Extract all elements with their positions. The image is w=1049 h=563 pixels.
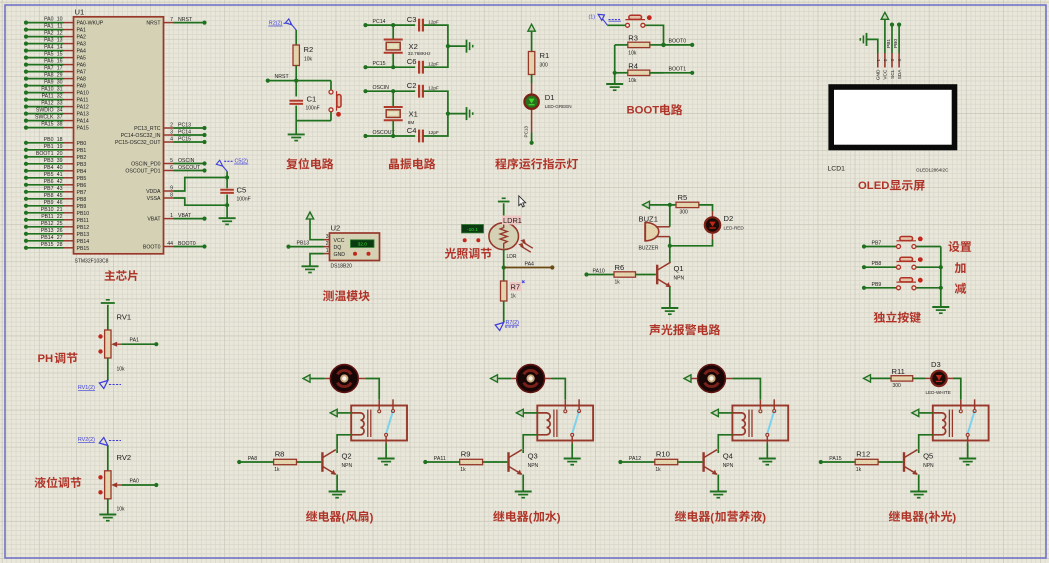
relay RL4 contact pins xyxy=(960,400,962,410)
wire right bus of X1 xyxy=(423,91,448,136)
svg-text:PA13: PA13 xyxy=(77,112,89,118)
svg-text:C5: C5 xyxy=(237,186,247,195)
wire probe to BOOT button xyxy=(607,24,625,26)
wire R1 to D1 xyxy=(531,75,533,84)
svg-text:NRST: NRST xyxy=(178,17,193,23)
svg-text:): ) xyxy=(762,512,766,524)
svg-text:LCD1: LCD1 xyxy=(828,166,846,173)
svg-text:PA2: PA2 xyxy=(44,31,54,37)
svg-text:30: 30 xyxy=(57,80,63,86)
reset button xyxy=(330,81,332,90)
wire PA4 node to R7 xyxy=(503,268,505,282)
svg-text:PA0-WKUP: PA0-WKUP xyxy=(77,21,104,27)
svg-text:PC13: PC13 xyxy=(178,123,191,129)
net PB13 wire to U2 xyxy=(289,246,324,248)
transistor Q5 NPN xyxy=(903,452,905,472)
svg-text:PA8: PA8 xyxy=(44,73,54,79)
svg-text:Q4: Q4 xyxy=(723,452,733,461)
net PC15 wire xyxy=(366,66,416,68)
net OSCOUT wire xyxy=(366,135,416,137)
svg-text:NRST: NRST xyxy=(146,21,161,27)
resistor R11 300 xyxy=(891,376,913,381)
svg-text:PB6: PB6 xyxy=(77,183,87,189)
svg-text:RV1: RV1 xyxy=(117,313,132,322)
svg-text:PB6: PB6 xyxy=(44,179,54,185)
svg-text:DS18B20: DS18B20 xyxy=(331,264,353,270)
svg-text:PA9: PA9 xyxy=(44,80,54,86)
svg-text:SWCLK: SWCLK xyxy=(35,115,54,121)
U1 pin 32 (PA11) left wire xyxy=(64,99,74,101)
svg-text:NPN: NPN xyxy=(342,463,353,469)
U1 pin 8 (VSSA) right xyxy=(164,197,174,199)
svg-text:(: ( xyxy=(710,512,714,524)
svg-text:12: 12 xyxy=(57,31,63,37)
label 继电器(加水) xyxy=(493,511,561,524)
ground below relay RL4 xyxy=(967,444,969,459)
wire D3 to relay RL4 xyxy=(948,377,954,379)
resistor R2 10k xyxy=(293,45,299,66)
svg-text:PB7: PB7 xyxy=(44,186,54,192)
U1 pin 28 (PB15) left wire xyxy=(64,247,74,249)
svg-text:U2: U2 xyxy=(331,224,341,233)
svg-text:21: 21 xyxy=(57,207,63,213)
svg-text:7: 7 xyxy=(170,17,173,23)
svg-text:PA9: PA9 xyxy=(77,84,87,90)
svg-text:PB2: PB2 xyxy=(77,155,87,161)
U1 pin 34 (SWDIO) left wire xyxy=(64,113,74,115)
net BOOT1 wire xyxy=(650,72,692,74)
U1 pin 2 (PC13_RTC) right xyxy=(164,127,174,129)
U1 pin 22 (PB11) left wire xyxy=(64,219,74,221)
svg-text:PA11: PA11 xyxy=(434,456,446,462)
svg-text:37: 37 xyxy=(57,115,63,121)
power terminal left of motor xyxy=(692,378,697,380)
svg-text:26: 26 xyxy=(57,228,63,234)
ground below RV2 xyxy=(99,514,116,516)
capacitor C2 12pF xyxy=(418,85,420,98)
resistor R8 1k xyxy=(239,461,273,463)
svg-text:PA12: PA12 xyxy=(41,101,53,107)
svg-text:(: ( xyxy=(341,512,345,524)
svg-text:8: 8 xyxy=(170,192,173,198)
resistor R5 300 xyxy=(676,202,699,207)
svg-text:R1: R1 xyxy=(540,51,550,60)
svg-text:PB1: PB1 xyxy=(886,39,892,48)
svg-text:C1: C1 xyxy=(307,95,317,104)
transistor Q2 NPN xyxy=(321,452,323,472)
svg-text:BOOT: BOOT xyxy=(627,105,660,117)
voltage probe C5(2) xyxy=(216,160,222,166)
svg-text:R10: R10 xyxy=(656,450,670,459)
node NRST horizontal wire xyxy=(268,80,331,82)
svg-text:R2: R2 xyxy=(304,45,314,54)
light adjust buttons xyxy=(463,238,467,242)
wire probe to R2 xyxy=(295,30,297,45)
label 加 xyxy=(955,262,966,273)
svg-text:PA7: PA7 xyxy=(77,70,87,76)
wire probe to RV2 xyxy=(107,446,109,471)
svg-text:39: 39 xyxy=(57,158,63,164)
svg-text:GND: GND xyxy=(334,252,346,258)
svg-text:PB13: PB13 xyxy=(77,232,90,238)
power terminal above R1 xyxy=(528,24,535,31)
label 液位调节 xyxy=(35,477,82,488)
svg-text:PB9: PB9 xyxy=(872,282,882,288)
U1 pin 19 (PB1) left wire xyxy=(64,149,74,151)
svg-text:9: 9 xyxy=(170,185,173,191)
svg-text:PA1: PA1 xyxy=(44,24,54,30)
label 继电器(补光) xyxy=(889,511,957,524)
ground below Q2 xyxy=(329,491,346,493)
label 晶振电路 xyxy=(389,158,435,169)
svg-text:SDA: SDA xyxy=(897,69,903,80)
wire D2 down to node xyxy=(712,234,714,240)
U1 pin 26 (PB13) left wire xyxy=(64,233,74,235)
svg-text:R4: R4 xyxy=(628,62,638,71)
svg-text:BUZZER: BUZZER xyxy=(639,246,659,252)
capacitor C1 100nF xyxy=(289,101,303,103)
power terminal left of R11 xyxy=(864,375,871,382)
ground below keys xyxy=(932,306,949,308)
svg-text:3: 3 xyxy=(326,234,329,240)
svg-text:C2: C2 xyxy=(407,81,417,90)
diode D2 LED-RED xyxy=(705,217,720,232)
svg-text:PB3: PB3 xyxy=(77,162,87,168)
U2 adjust buttons xyxy=(353,252,357,256)
ground below Q1 xyxy=(661,307,678,309)
wire C1 to bottom rail xyxy=(295,106,297,121)
svg-text:300: 300 xyxy=(540,63,549,69)
relay RL2 body xyxy=(537,406,593,441)
U2 green readout 32.0 xyxy=(351,240,375,248)
svg-text:46: 46 xyxy=(57,200,63,206)
svg-text:): ) xyxy=(557,512,561,524)
wire motor to relay contact xyxy=(359,378,366,380)
U1 pin 21 (PB10) left wire xyxy=(64,212,74,214)
net PA4 wire xyxy=(504,267,553,269)
U1 pin 12 (PA2) left wire xyxy=(64,36,74,38)
BOOT button xyxy=(625,24,627,26)
svg-text:1k: 1k xyxy=(460,467,466,473)
svg-text:32.768KHz: 32.768KHz xyxy=(408,51,431,56)
relay RL4 body xyxy=(933,406,989,441)
svg-text:PA5: PA5 xyxy=(77,56,87,62)
svg-text:DQ: DQ xyxy=(334,245,342,251)
svg-text:PB10: PB10 xyxy=(77,211,90,217)
svg-text:(: ( xyxy=(529,512,533,524)
capacitor C5 xyxy=(220,190,234,192)
svg-text:OSCIN: OSCIN xyxy=(373,85,390,91)
wire power to R5 xyxy=(650,204,676,206)
svg-text:29: 29 xyxy=(57,73,63,79)
svg-text:OSCOUT: OSCOUT xyxy=(178,165,201,171)
svg-text:OSCIN: OSCIN xyxy=(178,158,195,164)
svg-text:PC13_RTC: PC13_RTC xyxy=(134,126,161,132)
wire R3/R4 left junction xyxy=(614,45,616,84)
motor of RL1 xyxy=(330,365,358,393)
svg-text:PB12: PB12 xyxy=(41,221,54,227)
svg-text:LED-RED: LED-RED xyxy=(724,226,745,231)
wire R5 to D2 xyxy=(699,205,713,211)
label 设置 xyxy=(948,241,971,252)
svg-text:NPN: NPN xyxy=(723,463,734,469)
wire GND pin to side ground xyxy=(867,39,878,53)
svg-text:41: 41 xyxy=(57,172,63,178)
svg-text:PA4: PA4 xyxy=(77,49,87,55)
svg-text:45: 45 xyxy=(57,193,63,199)
label 光照调节 xyxy=(445,248,492,259)
svg-text:PA10: PA10 xyxy=(593,268,605,274)
svg-text:PC15-OSC32_OUT: PC15-OSC32_OUT xyxy=(115,140,161,146)
svg-text:1k: 1k xyxy=(274,467,280,473)
svg-text:VCC: VCC xyxy=(334,238,345,244)
svg-text:NPN: NPN xyxy=(674,276,685,282)
U1 pin 41 (PB5) left wire xyxy=(64,177,74,179)
svg-text:1k: 1k xyxy=(655,467,661,473)
svg-text:VCC: VCC xyxy=(883,69,889,80)
ground below Q4 xyxy=(710,491,727,493)
svg-text:18: 18 xyxy=(57,137,63,143)
svg-text:PB11: PB11 xyxy=(41,214,53,220)
relay RL4 core xyxy=(948,410,950,438)
U1 pin 38 (PA15) left wire xyxy=(64,127,74,129)
resistor R6 1k xyxy=(587,274,615,276)
svg-text:PB3: PB3 xyxy=(44,158,54,164)
svg-text:BOOT0: BOOT0 xyxy=(178,241,196,247)
svg-text:1: 1 xyxy=(170,213,173,219)
svg-text:PA6: PA6 xyxy=(77,63,87,69)
ground right of X1 xyxy=(466,107,468,120)
svg-text:12pF: 12pF xyxy=(428,85,439,90)
svg-text:PB7: PB7 xyxy=(872,241,882,247)
capacitor C4 12pF xyxy=(418,130,420,143)
push button PB8 xyxy=(896,266,898,268)
crystal X1 8M xyxy=(392,91,394,107)
wire R2 to NRST node xyxy=(295,66,297,81)
U1 pin 13 (PA3) left wire xyxy=(64,43,74,45)
resistor R12 1k xyxy=(821,461,855,463)
ground below relay RL3 xyxy=(766,444,768,459)
svg-text:OSCOUT_PD1: OSCOUT_PD1 xyxy=(125,169,160,175)
svg-text:2: 2 xyxy=(170,122,173,128)
voltage probe R2(2) xyxy=(285,19,291,25)
wire D1 to PC13 terminal xyxy=(531,110,533,133)
ground below Q5 xyxy=(910,491,927,493)
svg-text:Q5: Q5 xyxy=(923,452,933,461)
U1 pin 6 (OSCOUT_PD1) right xyxy=(164,170,174,172)
svg-text:R8: R8 xyxy=(275,450,285,459)
resistor R7 1k highlighted xyxy=(501,281,507,301)
svg-text:PA15: PA15 xyxy=(829,456,841,462)
svg-text:16: 16 xyxy=(57,59,63,65)
wire coil to collector xyxy=(337,435,351,450)
net OSCIN wire xyxy=(366,90,416,92)
label 测温模块 xyxy=(323,290,370,301)
label 复位电路 xyxy=(286,158,333,169)
svg-text:PB11: PB11 xyxy=(77,218,89,224)
wire motor to relay contact xyxy=(545,378,552,380)
svg-text:Q2: Q2 xyxy=(342,452,352,461)
wire R5 node down to buzzer xyxy=(669,205,671,227)
svg-text:R9: R9 xyxy=(461,450,471,459)
svg-text:32.0: 32.0 xyxy=(358,242,368,248)
label LDR1 highlighted xyxy=(502,216,522,225)
svg-text:PB1: PB1 xyxy=(44,144,54,150)
svg-text:PB8: PB8 xyxy=(44,193,54,199)
U1 STM32F103C8 main chip body xyxy=(74,17,164,254)
svg-text:17: 17 xyxy=(57,66,63,72)
resistor R1 300 xyxy=(528,52,534,75)
voltage probe R7(2) xyxy=(495,323,504,331)
svg-text:10k: 10k xyxy=(628,78,637,84)
svg-text:R3: R3 xyxy=(628,34,638,43)
svg-text:C6: C6 xyxy=(407,57,417,66)
resistor R10 1k xyxy=(620,461,654,463)
U1 pin 11 (PA1) left wire xyxy=(64,29,74,31)
svg-text:PC14: PC14 xyxy=(373,19,386,25)
push button PB9 xyxy=(896,287,898,289)
label 继电器(风扇) xyxy=(306,511,374,524)
svg-text:VBAT: VBAT xyxy=(178,213,192,219)
wire RV1 to probe xyxy=(107,358,109,381)
svg-text:OLED12864I2C: OLED12864I2C xyxy=(916,168,949,173)
relay RL3 core xyxy=(748,410,750,438)
svg-text:4: 4 xyxy=(170,136,173,142)
svg-text:): ) xyxy=(370,512,374,524)
capacitor C6 12pF xyxy=(418,61,420,74)
svg-text:BOOT0: BOOT0 xyxy=(143,245,161,251)
svg-text:PA14: PA14 xyxy=(77,119,89,125)
mouse cursor xyxy=(519,196,526,207)
relay RL4 lever xyxy=(968,411,975,434)
svg-text:PB7: PB7 xyxy=(77,190,87,196)
svg-text:PA10: PA10 xyxy=(41,87,53,93)
svg-text:C3: C3 xyxy=(407,15,417,24)
svg-text:1k: 1k xyxy=(856,467,862,473)
label 声光报警电路 xyxy=(649,324,720,335)
key PB7 row xyxy=(864,246,896,248)
svg-text:PB4: PB4 xyxy=(77,169,87,175)
svg-text:PB8: PB8 xyxy=(77,197,87,203)
wire coil to collector xyxy=(523,435,537,450)
key PB8 row xyxy=(864,266,896,268)
svg-text:C4: C4 xyxy=(407,126,417,135)
relay RL1 lever xyxy=(386,411,393,434)
svg-text:1k: 1k xyxy=(511,294,517,300)
svg-text:R11: R11 xyxy=(892,367,905,376)
svg-text:BOOT1: BOOT1 xyxy=(36,151,54,157)
svg-text:PB9: PB9 xyxy=(44,200,54,206)
svg-text:10k: 10k xyxy=(117,507,126,513)
svg-text:300: 300 xyxy=(680,210,689,216)
relay RL3 body xyxy=(732,406,788,441)
wire button to BOOT0 node xyxy=(645,25,664,45)
svg-text:PB0: PB0 xyxy=(44,137,54,143)
svg-text:40: 40 xyxy=(57,165,63,171)
svg-text:PA10: PA10 xyxy=(77,91,89,97)
svg-text:LDR: LDR xyxy=(507,254,517,260)
relay RL3 coil xyxy=(732,413,745,435)
U1 pin 9 (VDDA) right xyxy=(164,190,174,192)
power terminal left of R5 xyxy=(643,201,650,208)
svg-text:38: 38 xyxy=(57,122,63,128)
svg-text:): ) xyxy=(952,512,956,524)
svg-text:VBAT: VBAT xyxy=(147,217,161,223)
svg-text:PB0: PB0 xyxy=(893,39,899,48)
svg-text:PB1: PB1 xyxy=(77,148,87,154)
svg-text:R12: R12 xyxy=(856,450,870,459)
capacitor C3 12pF xyxy=(418,19,420,32)
label 程序运行指示灯 xyxy=(495,158,578,169)
wire RV2 to ground xyxy=(107,499,109,515)
svg-text:10k: 10k xyxy=(117,367,126,373)
U1 pin 40 (PB4) left wire xyxy=(64,170,74,172)
power terminal left of motor xyxy=(325,378,330,380)
ground left of OLED pins xyxy=(866,33,868,46)
svg-text:32: 32 xyxy=(57,94,63,100)
svg-text:VDDA: VDDA xyxy=(146,189,161,195)
svg-text:PA15: PA15 xyxy=(41,122,53,128)
U1 pin 5 (OSCIN_PD0) right xyxy=(164,163,174,165)
svg-text:RV2: RV2 xyxy=(117,453,132,462)
svg-text:BOOT1: BOOT1 xyxy=(669,66,687,72)
svg-text:PB13: PB13 xyxy=(297,241,310,247)
svg-text:20: 20 xyxy=(57,151,63,157)
svg-text:11: 11 xyxy=(57,24,62,30)
U1 pin 16 (PA6) left wire xyxy=(64,64,74,66)
svg-text:Q3: Q3 xyxy=(528,452,538,461)
svg-text:R6: R6 xyxy=(615,263,625,272)
relay RL1 core xyxy=(367,410,369,438)
voltage probe RV1(2) xyxy=(99,381,108,389)
ground below R3/R4 xyxy=(606,83,623,85)
svg-text:44: 44 xyxy=(167,241,173,247)
svg-text:12pF: 12pF xyxy=(428,61,439,66)
svg-text:PC13: PC13 xyxy=(524,126,529,138)
ground below relay RL1 xyxy=(385,444,387,459)
svg-text:PB5: PB5 xyxy=(44,172,54,178)
net PC14 wire xyxy=(366,24,416,26)
power bar above LDR1 xyxy=(503,203,505,222)
svg-text:BOOT0: BOOT0 xyxy=(669,39,687,45)
svg-text:31: 31 xyxy=(57,87,63,93)
svg-text:13: 13 xyxy=(57,38,63,44)
svg-text:PA3: PA3 xyxy=(77,42,87,48)
svg-text:PH: PH xyxy=(38,353,54,365)
svg-text:PA0: PA0 xyxy=(130,478,140,484)
wire coil to collector xyxy=(919,435,933,450)
U2 pin 1 GND xyxy=(324,253,330,255)
svg-text:PB14: PB14 xyxy=(77,239,90,245)
wire coil to collector xyxy=(718,435,732,450)
motor of RL2 xyxy=(517,365,545,393)
U1 pin 42 (PB6) left wire xyxy=(64,184,74,186)
svg-text:PA2: PA2 xyxy=(77,35,87,41)
svg-text:14: 14 xyxy=(57,45,63,51)
svg-text:U1: U1 xyxy=(75,8,85,17)
relay RL1 contact pins xyxy=(378,400,380,410)
svg-text:Q1: Q1 xyxy=(674,264,684,273)
U1 pin 3 (PC14-OSC32_IN) right xyxy=(164,134,174,136)
power terminal left of relay coil xyxy=(516,409,523,416)
push button PB7 xyxy=(896,246,898,248)
ground below C1 xyxy=(295,121,297,135)
U2 pin 2 DQ xyxy=(324,246,330,248)
svg-text:3: 3 xyxy=(170,129,173,135)
svg-text:STM32F103C8: STM32F103C8 xyxy=(75,258,109,264)
ground below Q3 xyxy=(515,491,532,493)
svg-text:PC14-OSC32_IN: PC14-OSC32_IN xyxy=(121,133,161,139)
